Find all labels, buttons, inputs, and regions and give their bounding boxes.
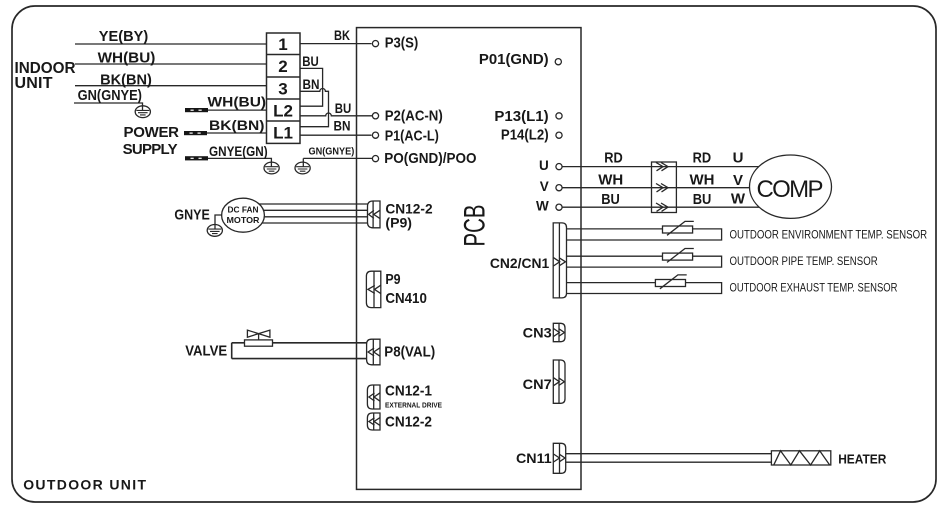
ground G1 <box>135 106 150 118</box>
svg-text:OUTDOOR PIPE TEMP. SENSOR: OUTDOOR PIPE TEMP. SENSOR <box>730 254 878 268</box>
svg-text:GNYE: GNYE <box>174 207 209 224</box>
svg-text:(P9): (P9) <box>385 215 412 231</box>
thermistor 2 <box>663 253 693 260</box>
wire GNYE(GN) power to ground <box>208 158 271 162</box>
pin U <box>556 164 562 170</box>
svg-text:P9: P9 <box>385 271 400 288</box>
wires CN11 to heater <box>566 454 772 463</box>
pin P14(L2) <box>556 132 562 138</box>
svg-text:WH(BU): WH(BU) <box>208 93 267 109</box>
ground G4 <box>207 225 222 237</box>
svg-text:GNYE(GN): GNYE(GN) <box>209 143 268 159</box>
svg-text:MOTOR: MOTOR <box>227 215 260 225</box>
wire BK(BN) power to L1 <box>207 132 267 134</box>
UVW connector box <box>652 162 677 213</box>
svg-text:COMP: COMP <box>757 176 824 203</box>
connector P8(VAL) <box>367 339 380 365</box>
svg-text:V: V <box>733 172 743 189</box>
svg-text:P01(GND): P01(GND) <box>479 51 549 68</box>
valve coil body <box>245 340 273 346</box>
wire BU jumper terminal2 to L2 <box>300 68 323 106</box>
svg-text:V: V <box>540 179 549 194</box>
svg-text:P8(VAL): P8(VAL) <box>384 344 435 361</box>
svg-text:1: 1 <box>278 35 287 54</box>
svg-text:BK: BK <box>334 27 350 43</box>
terminal block outline <box>267 33 301 143</box>
svg-text:2: 2 <box>278 57 287 76</box>
sensor loop 3 <box>567 283 722 294</box>
svg-text:CN2/CN1: CN2/CN1 <box>490 255 550 271</box>
wire WH(BU) to terminal 2 <box>75 63 267 65</box>
connector CN2/CN1 <box>553 223 566 298</box>
ground G3 <box>295 158 310 174</box>
svg-text:RD: RD <box>604 149 623 166</box>
connector P9 CN410 <box>366 271 380 307</box>
svg-text:OUTDOOR UNIT: OUTDOOR UNIT <box>23 477 146 493</box>
ground G2 <box>264 162 279 174</box>
chevrons on W wire <box>656 203 668 211</box>
svg-text:SUPPLY: SUPPLY <box>123 141 178 158</box>
sensor loop 2 <box>567 256 722 267</box>
svg-text:RD: RD <box>693 149 712 166</box>
wire BN from L1 to P1(AC-L) <box>300 134 372 136</box>
svg-text:W: W <box>731 191 746 208</box>
wire YE(BY) to terminal 1 <box>75 43 267 45</box>
wire BK(BN) to terminal 3 <box>75 85 267 87</box>
connector CN7 <box>553 360 565 403</box>
thermistor 1 <box>663 226 693 233</box>
power lead WH(BU) black bar <box>185 108 208 112</box>
svg-text:CN12-2: CN12-2 <box>385 414 432 431</box>
wire BN jumper terminal3 to L1 (hops over BU) <box>300 89 329 127</box>
svg-text:U: U <box>539 158 549 173</box>
connector CN12-2 (fan) <box>368 201 381 228</box>
wire GN(GNYE) to PO(GND) <box>303 157 372 159</box>
pin PO(GND)/POO <box>372 156 378 162</box>
svg-text:P2(AC-N): P2(AC-N) <box>385 108 443 125</box>
wire BK terminal1 to P3(S) <box>300 43 372 45</box>
connector CN12-1 <box>367 385 380 409</box>
wire WH(BU) power to L2 <box>208 109 267 111</box>
power lead BK(BN) black bar <box>184 131 207 135</box>
svg-text:PO(GND)/POO: PO(GND)/POO <box>384 150 476 167</box>
sensor loop 1 <box>567 229 722 240</box>
svg-text:BU: BU <box>335 100 352 116</box>
svg-text:P3(S): P3(S) <box>385 35 419 52</box>
wires U V W to compressor <box>562 167 770 208</box>
svg-text:YE(BY): YE(BY) <box>99 28 148 45</box>
svg-text:CN11: CN11 <box>516 450 552 466</box>
svg-text:OUTDOOR EXHAUST TEMP. SENSOR: OUTDOOR EXHAUST TEMP. SENSOR <box>730 280 898 294</box>
svg-text:WH: WH <box>598 171 623 188</box>
svg-text:P14(L2): P14(L2) <box>501 126 549 143</box>
svg-text:L1: L1 <box>273 124 293 143</box>
svg-text:CN3: CN3 <box>523 324 552 340</box>
chevrons on U wire <box>656 162 668 170</box>
svg-text:GN(GNYE): GN(GNYE) <box>309 146 355 158</box>
wire motor to ground <box>215 215 222 225</box>
PCB box <box>357 28 582 490</box>
svg-text:WH: WH <box>690 171 715 188</box>
heater element <box>771 451 830 465</box>
pin V <box>556 185 562 191</box>
wire GN(GNYE) to ground <box>74 103 143 106</box>
pin P01(GND) <box>555 59 561 65</box>
svg-text:W: W <box>536 198 549 213</box>
DC FAN MOTOR <box>222 198 265 232</box>
pin P3(S) <box>372 41 378 47</box>
svg-text:CN410: CN410 <box>385 290 427 307</box>
power lead GNYE(GN) black bar <box>185 156 208 160</box>
svg-text:BU: BU <box>601 191 620 208</box>
svg-text:UNIT: UNIT <box>15 75 53 92</box>
wire BU from L2 to P2(AC-N) (hops over BN) <box>300 113 372 116</box>
svg-text:P1(AC-L): P1(AC-L) <box>385 128 439 145</box>
svg-text:HEATER: HEATER <box>838 452 887 467</box>
connector CN3 <box>553 323 565 341</box>
thermistor 3 <box>655 280 685 287</box>
svg-text:CN7: CN7 <box>523 376 552 392</box>
valve bowtie symbol <box>247 330 270 340</box>
svg-text:OUTDOOR ENVIRONMENT TEMP. SENS: OUTDOOR ENVIRONMENT TEMP. SENSOR <box>730 228 928 242</box>
svg-text:U: U <box>733 149 744 166</box>
fan motor wires to CN12-2 <box>255 204 368 223</box>
svg-text:BU: BU <box>302 53 319 69</box>
valve wire loop <box>232 343 367 359</box>
svg-text:BU: BU <box>693 191 712 208</box>
connector CN12-2 (bottom) <box>367 413 380 430</box>
svg-text:EXTERNAL DRIVE: EXTERNAL DRIVE <box>385 400 442 409</box>
chevrons on V wire <box>656 184 668 192</box>
svg-text:P13(L1): P13(L1) <box>494 108 548 125</box>
svg-text:BN: BN <box>334 118 351 134</box>
svg-text:BN: BN <box>303 76 320 92</box>
svg-text:3: 3 <box>278 80 287 99</box>
compressor COMP <box>750 155 832 218</box>
pin P2(AC-N) <box>372 113 378 119</box>
svg-text:BK(BN): BK(BN) <box>100 72 152 89</box>
svg-text:PCB: PCB <box>458 205 491 247</box>
svg-text:WH(BU): WH(BU) <box>98 49 156 66</box>
connector CN11 <box>553 443 565 473</box>
svg-text:VALVE: VALVE <box>185 343 227 360</box>
svg-text:BK(BN): BK(BN) <box>209 117 264 133</box>
svg-text:GN(GNYE): GN(GNYE) <box>78 87 142 104</box>
pin P13(L1) <box>556 113 562 119</box>
svg-text:DC FAN: DC FAN <box>228 205 259 215</box>
svg-text:L2: L2 <box>273 102 293 121</box>
pin P1(AC-L) <box>372 132 378 138</box>
svg-text:POWER: POWER <box>124 124 180 141</box>
pin W <box>556 204 562 210</box>
svg-text:CN12-1: CN12-1 <box>385 382 432 399</box>
